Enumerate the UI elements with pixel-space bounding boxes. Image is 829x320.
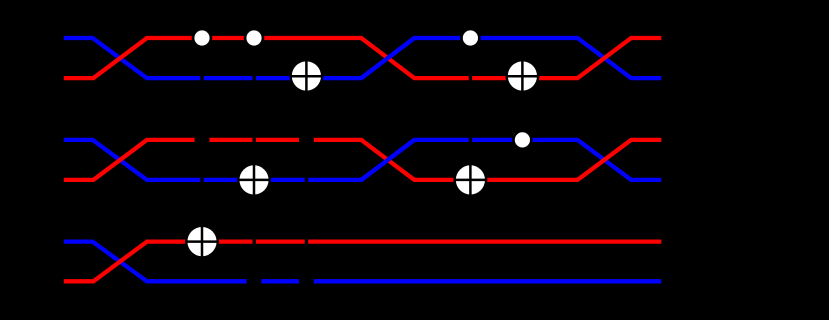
halo of XOR target row1 col 522: [505, 59, 539, 93]
control dot (open, white): row1 top col 470: [463, 30, 478, 45]
control dot (open, white): row1 top col 254: [246, 30, 261, 45]
wire: connector column 306: [305, 78, 308, 281]
wire: row3 blue qubit line: [64, 242, 662, 282]
wire: connector column 470: [469, 38, 472, 180]
XOR target circle: row3 top col 202: [187, 227, 216, 256]
control dot (open, white): row1 top col 202: [194, 30, 209, 45]
halo of XOR target row2 col 470: [453, 163, 487, 197]
control dot (filled, black): row3 bottom col 254: [247, 274, 262, 289]
wire: row1 blue ascending overlay at crossing 2: [361, 38, 414, 78]
control dot (filled, black): row2 top col 306: [299, 132, 314, 147]
XOR cross row2 col 254: [238, 179, 270, 182]
wire: connector column 522: [521, 78, 524, 140]
black vertical connectors (invisible on black; create wire gaps): [202, 38, 522, 281]
control dot (open, white): row2 top col 522: [515, 132, 530, 147]
XOR target circle: row2 bottom col 470: [456, 165, 485, 194]
halo of control dot row2 col 522: [512, 130, 533, 151]
black halo rings under gate symbols: [185, 28, 539, 289]
black crosses inside XOR targets: [186, 60, 538, 257]
XOR cross row1 col 522: [507, 75, 539, 78]
white gate symbols: [187, 30, 537, 256]
XOR cross row1 col 306: [291, 75, 323, 78]
wire: row2 red qubit line: [64, 140, 662, 180]
wire: connector column 202: [200, 38, 203, 242]
halo of XOR target row1 col 306: [289, 59, 323, 93]
XOR target circle: row1 bottom col 522: [508, 61, 537, 90]
XOR cross row3 col 202: [186, 240, 218, 243]
control dot (filled, black): row2 top col 202: [195, 132, 210, 147]
XOR target circle: row2 bottom col 254: [239, 165, 268, 194]
control dot (filled, black): row3 bottom col 306: [299, 274, 314, 289]
halo of control dot row1 col 202: [192, 28, 213, 49]
XOR cross row2 col 470: [455, 179, 487, 182]
wire: row2 blue ascending overlay at crossing 2: [361, 140, 414, 180]
wire: row1 red qubit line: [64, 38, 662, 78]
wire: row1 blue qubit line: [64, 38, 662, 78]
wire: row2 blue qubit line: [64, 140, 662, 180]
halo of control dot row1 col 470: [460, 28, 481, 49]
halo of control dot row1 col 254: [244, 28, 265, 49]
halo of XOR target row3 col 202: [185, 225, 219, 259]
halo of XOR target row2 col 254: [237, 163, 271, 197]
XOR target circle: row1 bottom col 306: [292, 61, 321, 90]
wire: connector column 254: [252, 38, 255, 281]
wire: row3 red qubit line: [64, 242, 662, 282]
